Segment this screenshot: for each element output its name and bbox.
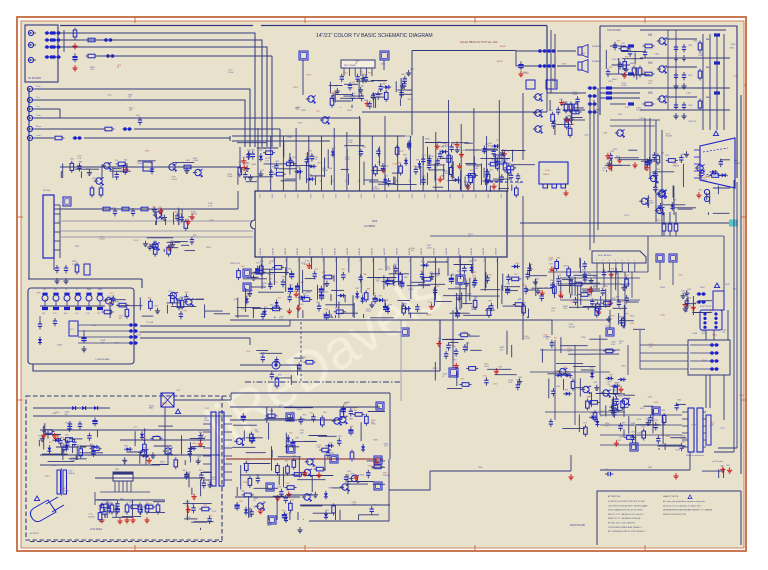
svg-text:R328: R328 <box>660 287 665 289</box>
svg-text:C325: C325 <box>584 135 589 137</box>
svg-text:R50: R50 <box>209 516 212 518</box>
svg-text:D981: D981 <box>563 266 568 268</box>
svg-text:AUDOUT: AUDOUT <box>284 248 287 255</box>
svg-text:R95: R95 <box>352 82 355 84</box>
svg-text:AUDOUT: AUDOUT <box>321 248 324 255</box>
svg-text:R30: R30 <box>241 491 244 493</box>
svg-text:V398: V398 <box>396 272 400 274</box>
svg-text:C218: C218 <box>733 289 738 291</box>
svg-text:D140: D140 <box>134 240 139 242</box>
svg-text:R761: R761 <box>209 220 214 222</box>
svg-text:D417: D417 <box>142 438 147 440</box>
svg-text:IFVID: IFVID <box>296 194 298 199</box>
svg-text:R85: R85 <box>661 435 664 437</box>
svg-text:B27 2V9N&2030 12NE O1 Y2351 B2: B27 2V9N&2030 12NE O1 Y2351 B2N&F L2 <box>608 531 646 533</box>
svg-text:IFVID: IFVID <box>309 194 311 199</box>
svg-text:R61: R61 <box>148 504 151 506</box>
svg-text:R26: R26 <box>70 159 73 161</box>
svg-text:Model 8821CS TOP Ver. BA: Model 8821CS TOP Ver. BA <box>460 40 498 44</box>
svg-text:R44: R44 <box>499 367 502 369</box>
svg-text:R14: R14 <box>344 72 347 74</box>
svg-text:V647: V647 <box>600 411 604 413</box>
svg-text:EXT18.5 OLL/ 1 2OLY B2NuF B: EXT18.5 OLL/ 1 2OLY B2NuF B <box>608 523 636 525</box>
svg-text:R90: R90 <box>263 501 266 503</box>
svg-text:R10: R10 <box>681 291 684 293</box>
svg-text:R07: R07 <box>155 306 158 308</box>
svg-text:IP40 T102YF: IP40 T102YF <box>700 306 712 308</box>
svg-text:100uF: 100uF <box>137 163 143 165</box>
svg-text:R50: R50 <box>371 98 374 100</box>
svg-text:R322: R322 <box>408 99 413 101</box>
svg-text:R38: R38 <box>627 48 630 50</box>
svg-text:R83: R83 <box>253 506 256 508</box>
svg-text:TV-in: TV-in <box>36 86 41 88</box>
svg-text:R13: R13 <box>474 297 477 299</box>
svg-text:R20: R20 <box>364 100 367 102</box>
svg-text:R93: R93 <box>379 89 382 91</box>
svg-text:C445: C445 <box>604 469 608 471</box>
svg-text:V599: V599 <box>455 287 459 289</box>
svg-text:R914: R914 <box>706 97 711 99</box>
svg-text:R38: R38 <box>193 443 196 445</box>
svg-text:IFVID: IFVID <box>410 194 412 199</box>
svg-text:C945: C945 <box>675 450 680 452</box>
svg-text:D433: D433 <box>571 302 576 304</box>
svg-text:2.7K: 2.7K <box>72 264 77 266</box>
svg-text:R10: R10 <box>593 287 596 289</box>
svg-text:01894 7k OT T +BB (B8v26 O7v23: 01894 7k OT T +BB (B8v26 O7v23p-B <box>608 518 641 520</box>
svg-text:R14: R14 <box>185 292 188 294</box>
svg-text:R172: R172 <box>399 151 404 153</box>
svg-text:0.01uF: 0.01uF <box>193 160 199 162</box>
svg-text:R93: R93 <box>611 315 614 317</box>
svg-text:C966: C966 <box>381 63 386 65</box>
svg-text:1N4148: 1N4148 <box>62 490 68 492</box>
svg-text:R54: R54 <box>350 426 353 428</box>
svg-text:C421: C421 <box>330 453 335 455</box>
svg-text:1N4148: 1N4148 <box>734 163 740 165</box>
svg-text:V548: V548 <box>693 333 697 335</box>
svg-text:R66: R66 <box>401 74 404 76</box>
svg-text:100uF: 100uF <box>637 435 643 437</box>
svg-text:R56: R56 <box>516 263 519 265</box>
svg-text:100uF: 100uF <box>71 460 77 462</box>
svg-text:R28: R28 <box>323 284 326 286</box>
svg-text:R61: R61 <box>356 288 359 290</box>
svg-text:D739: D739 <box>569 115 574 117</box>
svg-text:R38: R38 <box>115 302 118 304</box>
svg-text:R22: R22 <box>305 154 308 156</box>
svg-text:R80: R80 <box>466 343 469 345</box>
svg-text:R51: R51 <box>387 279 390 281</box>
svg-text:R31: R31 <box>632 431 635 433</box>
svg-text:R84: R84 <box>316 302 319 304</box>
svg-text:R19: R19 <box>429 302 432 304</box>
svg-text:R19: R19 <box>293 291 296 293</box>
svg-text:R64: R64 <box>289 158 292 160</box>
svg-text:R18: R18 <box>285 514 288 516</box>
svg-text:R39: R39 <box>583 270 586 272</box>
svg-text:L825: L825 <box>472 272 476 274</box>
svg-text:VC1: VC1 <box>70 329 74 331</box>
svg-text:R59: R59 <box>617 40 620 42</box>
svg-text:R33: R33 <box>343 404 346 406</box>
svg-text:N01: N01 <box>372 219 378 223</box>
svg-text:R913: R913 <box>706 67 711 69</box>
svg-text:R29: R29 <box>110 293 113 295</box>
svg-text:R32: R32 <box>246 460 249 462</box>
svg-text:D469: D469 <box>251 164 256 166</box>
svg-text:R07: R07 <box>361 86 364 88</box>
svg-text:R75: R75 <box>422 176 425 178</box>
svg-text:100uF: 100uF <box>573 94 579 96</box>
svg-text:V651: V651 <box>406 90 410 92</box>
svg-text:D941: D941 <box>326 420 331 422</box>
svg-text:L451: L451 <box>493 384 497 386</box>
svg-text:R37: R37 <box>256 263 259 265</box>
svg-text:C912: C912 <box>688 75 693 77</box>
svg-text:IFVID: IFVID <box>423 194 425 199</box>
svg-text:R97: R97 <box>184 310 187 312</box>
svg-text:R451: R451 <box>731 44 736 46</box>
svg-text:R983: R983 <box>334 458 339 460</box>
svg-text:R86: R86 <box>345 416 348 418</box>
svg-text:R38: R38 <box>518 299 521 301</box>
svg-text:D508: D508 <box>654 402 659 404</box>
svg-text:R91: R91 <box>322 272 325 274</box>
svg-text:V891: V891 <box>312 166 316 168</box>
svg-text:TUG2 14: TUG2 14 <box>688 121 697 123</box>
svg-text:L203: L203 <box>720 428 724 430</box>
svg-text:L275: L275 <box>133 427 137 429</box>
svg-text:V268: V268 <box>169 245 173 247</box>
svg-text:D515: D515 <box>734 76 739 78</box>
svg-text:1N4148: 1N4148 <box>471 309 477 311</box>
svg-text:D504: D504 <box>186 517 191 519</box>
svg-text:R09: R09 <box>673 200 676 202</box>
svg-text:R397: R397 <box>373 466 378 468</box>
svg-text:C381: C381 <box>288 406 293 408</box>
svg-text:R04: R04 <box>98 508 101 510</box>
svg-text:R32: R32 <box>260 261 263 263</box>
svg-text:100uF: 100uF <box>345 159 351 161</box>
svg-text:1N4148: 1N4148 <box>373 189 379 191</box>
svg-text:C901: C901 <box>678 274 683 276</box>
svg-text:100uF: 100uF <box>443 173 449 175</box>
svg-text:R10: R10 <box>282 510 285 512</box>
svg-text:L154: L154 <box>612 390 616 392</box>
svg-text:GND: GND <box>478 467 483 469</box>
svg-text:R64: R64 <box>362 146 365 148</box>
svg-text:R78: R78 <box>556 386 559 388</box>
svg-text:R12: R12 <box>422 262 425 264</box>
svg-text:T902: T902 <box>176 390 180 392</box>
svg-text:R67: R67 <box>473 278 476 280</box>
svg-text:R41: R41 <box>549 263 552 265</box>
svg-text:V220: V220 <box>581 337 585 339</box>
svg-text:D113: D113 <box>408 289 412 291</box>
svg-text:C995: C995 <box>36 292 41 294</box>
svg-text:R77: R77 <box>518 182 521 184</box>
svg-text:R19: R19 <box>388 304 391 306</box>
svg-text:R85: R85 <box>363 274 366 276</box>
svg-text:C916: C916 <box>608 81 613 83</box>
svg-text:LIVE AREA: LIVE AREA <box>90 528 103 531</box>
svg-text:R945: R945 <box>349 419 354 421</box>
svg-text:1N4148: 1N4148 <box>569 326 575 328</box>
svg-text:100uF: 100uF <box>108 305 114 307</box>
svg-text:R58: R58 <box>306 296 309 298</box>
svg-text:D836: D836 <box>739 395 744 397</box>
svg-text:R09: R09 <box>622 423 625 425</box>
svg-text:0.01uF: 0.01uF <box>636 110 642 112</box>
svg-text:R70: R70 <box>461 150 464 152</box>
svg-text:100uF: 100uF <box>567 350 573 352</box>
svg-text:100uF: 100uF <box>484 366 490 368</box>
svg-text:C562: C562 <box>693 40 698 42</box>
svg-text:R57: R57 <box>192 504 195 506</box>
svg-text:R86: R86 <box>91 447 94 449</box>
svg-text:R07: R07 <box>617 440 620 442</box>
svg-text:R27: R27 <box>278 298 281 300</box>
svg-text:L-out: L-out <box>36 134 41 137</box>
svg-text:C683: C683 <box>327 275 332 277</box>
svg-text:L489: L489 <box>473 260 477 262</box>
svg-text:L304: L304 <box>328 168 332 170</box>
svg-text:R56: R56 <box>352 93 355 95</box>
svg-text:C555: C555 <box>351 408 356 410</box>
svg-text:R36: R36 <box>354 410 357 412</box>
svg-text:R13: R13 <box>197 457 200 459</box>
svg-text:SAFETY NOTE:: SAFETY NOTE: <box>663 495 679 498</box>
svg-text:R16: R16 <box>600 415 603 417</box>
svg-text:R81: R81 <box>504 159 507 161</box>
svg-text:R15: R15 <box>385 165 388 167</box>
svg-text:0.01uF: 0.01uF <box>640 73 646 75</box>
svg-text:AUDOUT: AUDOUT <box>333 248 336 255</box>
svg-text:0.01uF: 0.01uF <box>211 479 217 481</box>
svg-text:R68: R68 <box>557 257 560 259</box>
svg-text:R446: R446 <box>523 72 528 74</box>
svg-text:R57: R57 <box>148 298 151 300</box>
svg-text:R53: R53 <box>616 297 619 299</box>
svg-text:01294 12N4E69 67F-2182 (8 O7v: 01294 12N4E69 67F-2182 (8 O7v2 F428 <box>608 510 642 512</box>
svg-text:R904: R904 <box>612 79 617 81</box>
svg-text:R65: R65 <box>699 190 702 192</box>
svg-text:R77: R77 <box>274 460 277 462</box>
svg-text:R99: R99 <box>606 159 609 161</box>
svg-text:R31: R31 <box>204 505 207 507</box>
svg-text:R35: R35 <box>626 314 629 316</box>
svg-text:R62: R62 <box>404 303 407 305</box>
svg-text:AUDOUT: AUDOUT <box>395 248 398 255</box>
svg-text:R32: R32 <box>254 430 257 432</box>
svg-text:L140: L140 <box>237 173 241 175</box>
svg-text:AUDOUT: AUDOUT <box>271 248 274 255</box>
svg-text:R29: R29 <box>665 155 668 157</box>
svg-text:R14: R14 <box>107 162 110 164</box>
svg-text:R08: R08 <box>335 308 338 310</box>
svg-text:R18: R18 <box>558 275 561 277</box>
svg-text:R41: R41 <box>269 278 272 280</box>
svg-text:R81: R81 <box>174 212 177 214</box>
svg-text:100uF: 100uF <box>160 464 166 466</box>
svg-text:SAW-F: SAW-F <box>543 173 550 176</box>
svg-text:C817: C817 <box>298 123 303 125</box>
svg-text:1: 1 <box>634 260 635 262</box>
svg-text:N03 LA78040: N03 LA78040 <box>598 254 612 257</box>
svg-text:V153: V153 <box>640 408 644 410</box>
svg-text:R92: R92 <box>436 286 439 288</box>
svg-text:Y-in: Y-in <box>36 97 39 99</box>
svg-text:R38: R38 <box>609 374 612 376</box>
svg-text:R02: R02 <box>678 400 681 402</box>
svg-text:R53: R53 <box>115 160 118 162</box>
svg-text:R86: R86 <box>273 371 276 373</box>
svg-text:R55: R55 <box>329 443 332 445</box>
svg-text:IFVID: IFVID <box>372 194 374 199</box>
svg-text:R79: R79 <box>472 275 475 277</box>
svg-text:FlyBack transformer: FlyBack transformer <box>686 454 704 457</box>
svg-text:D211: D211 <box>396 154 400 156</box>
svg-text:L149: L149 <box>111 207 115 209</box>
svg-text:C300: C300 <box>660 315 665 317</box>
svg-text:R82: R82 <box>404 277 407 279</box>
svg-text:R43: R43 <box>614 382 617 384</box>
svg-text:C913: C913 <box>688 105 693 107</box>
svg-text:R56: R56 <box>313 466 316 468</box>
svg-text:R03: R03 <box>682 441 685 443</box>
svg-text:R82: R82 <box>285 460 288 462</box>
svg-text:R22: R22 <box>276 161 279 163</box>
svg-text:R14: R14 <box>385 89 388 91</box>
svg-text:R31: R31 <box>438 338 441 340</box>
svg-text:IFVID: IFVID <box>283 194 285 199</box>
svg-text:R09: R09 <box>105 508 108 510</box>
svg-text:R31: R31 <box>338 436 341 438</box>
svg-text:DESIGN&SPECIFICATIONS ARE SUBJ: DESIGN&SPECIFICATIONS ARE SUBJECT TO CHA… <box>663 509 713 512</box>
svg-text:R85: R85 <box>413 166 416 168</box>
svg-text:R56: R56 <box>251 149 254 151</box>
svg-text:C163: C163 <box>603 133 608 135</box>
svg-text:C421: C421 <box>301 263 306 265</box>
svg-text:V757: V757 <box>457 271 461 273</box>
svg-text:R09: R09 <box>403 154 406 156</box>
svg-text:V902: V902 <box>648 62 652 64</box>
svg-text:R99: R99 <box>518 377 521 379</box>
svg-text:R27: R27 <box>371 468 374 470</box>
svg-text:R34: R34 <box>152 206 155 208</box>
svg-text:C757: C757 <box>212 511 217 513</box>
svg-text:R16: R16 <box>278 486 281 488</box>
svg-text:L530: L530 <box>630 323 634 325</box>
svg-text:AUDIO: AUDIO <box>497 60 504 63</box>
svg-text:R81: R81 <box>469 170 472 172</box>
svg-text:L780: L780 <box>301 418 305 420</box>
svg-text:R25: R25 <box>239 501 242 503</box>
svg-text:R42: R42 <box>621 43 624 45</box>
svg-text:R747: R747 <box>347 110 352 112</box>
svg-text:R56: R56 <box>611 151 614 153</box>
svg-text:D664: D664 <box>425 138 430 140</box>
svg-text:AUDOUT: AUDOUT <box>346 248 349 255</box>
svg-text:GML: GML <box>648 467 652 469</box>
svg-text:R01: R01 <box>325 510 328 512</box>
svg-text:R97: R97 <box>554 337 557 339</box>
svg-text:1N4148: 1N4148 <box>666 136 672 138</box>
svg-text:please do not use substitutes: please do not use substitutes or replace… <box>663 504 702 507</box>
svg-text:R23: R23 <box>688 289 691 291</box>
svg-text:AUDOUT: AUDOUT <box>470 248 473 255</box>
svg-text:R506: R506 <box>360 475 365 477</box>
svg-text:D130: D130 <box>609 386 614 388</box>
svg-text:R79: R79 <box>315 269 318 271</box>
svg-text:R87: R87 <box>488 300 491 302</box>
svg-text:R08: R08 <box>351 473 354 475</box>
svg-text:R94: R94 <box>451 144 454 146</box>
svg-text:N3 TDA: N3 TDA <box>43 189 51 192</box>
svg-text:R94: R94 <box>191 218 194 220</box>
svg-text:D287: D287 <box>234 299 239 301</box>
svg-text:R27: R27 <box>309 151 312 153</box>
svg-text:R46: R46 <box>485 176 488 178</box>
svg-text:V887: V887 <box>306 292 310 294</box>
svg-text:R44: R44 <box>242 157 245 159</box>
svg-text:C654: C654 <box>655 53 660 55</box>
svg-text:IFVID: IFVID <box>398 194 400 199</box>
svg-text:R16: R16 <box>334 86 337 88</box>
svg-text:R953: R953 <box>562 63 567 65</box>
svg-text:1N4148: 1N4148 <box>673 166 679 168</box>
svg-text:R562: R562 <box>730 48 735 50</box>
svg-text:D527: D527 <box>640 118 645 120</box>
svg-text:1N4148: 1N4148 <box>191 214 197 216</box>
svg-text:IFVID: IFVID <box>436 194 438 199</box>
svg-text:V273: V273 <box>317 163 321 165</box>
svg-text:R456: R456 <box>268 274 273 276</box>
svg-text:R77: R77 <box>583 423 586 425</box>
svg-text:D818: D818 <box>45 476 50 478</box>
svg-text:R33: R33 <box>564 367 567 369</box>
svg-text:R15: R15 <box>65 435 68 437</box>
svg-text:IFVID: IFVID <box>334 194 336 199</box>
svg-text:0.01uF: 0.01uF <box>524 338 530 340</box>
svg-text:R416: R416 <box>373 439 378 441</box>
svg-text:0.01uF: 0.01uF <box>702 333 708 335</box>
svg-text:R39: R39 <box>367 289 370 291</box>
svg-text:R52: R52 <box>514 274 517 276</box>
svg-text:L865: L865 <box>333 92 337 94</box>
svg-text:1N4148: 1N4148 <box>68 473 74 475</box>
svg-text:L613: L613 <box>606 325 610 327</box>
svg-text:C236: C236 <box>287 137 292 139</box>
svg-text:1N4148: 1N4148 <box>383 475 389 477</box>
svg-text:LA76810: LA76810 <box>364 224 376 228</box>
svg-text:R10: R10 <box>39 436 42 438</box>
svg-text:R83: R83 <box>507 284 510 286</box>
svg-text:R12: R12 <box>559 292 562 294</box>
svg-text:1N4148: 1N4148 <box>200 436 206 438</box>
svg-text:C495: C495 <box>648 397 653 399</box>
svg-text:4: 4 <box>615 260 616 262</box>
svg-text:T-out: T-out <box>36 114 41 117</box>
svg-text:R65: R65 <box>609 67 612 69</box>
svg-text:AUDOUT: AUDOUT <box>383 248 386 255</box>
svg-text:R268: R268 <box>426 314 431 316</box>
svg-text:1N4148: 1N4148 <box>701 180 707 182</box>
svg-text:R02: R02 <box>175 292 178 294</box>
svg-text:R05: R05 <box>488 274 491 276</box>
